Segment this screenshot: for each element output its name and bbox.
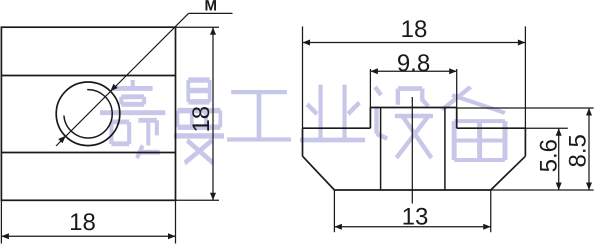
leader arrowhead upper (points down-left onto circle) <box>110 84 117 91</box>
dim 13: arrow right <box>483 224 491 230</box>
svg-text:18: 18 <box>69 209 96 236</box>
svg-text:M: M <box>204 0 217 14</box>
dim 9.8: right extension line <box>456 69 458 108</box>
right view plate right side <box>524 128 526 156</box>
svg-text:5.6: 5.6 <box>536 139 563 172</box>
watermark 曼 <box>174 80 224 163</box>
dim 18 top: arrow left <box>303 40 311 46</box>
dim 8.5: arrow down <box>586 183 592 191</box>
right view right chamfer <box>491 156 526 190</box>
watermark 工 <box>227 92 291 139</box>
dim 9.8: arrow right <box>449 68 457 74</box>
dim 18 vertical: arrow up <box>210 27 216 35</box>
right view plate top left segment <box>303 127 371 129</box>
dim 5.6: top extension line <box>525 127 567 129</box>
thread inner arc (3/4 circle) <box>64 90 112 138</box>
svg-text:18: 18 <box>401 16 428 43</box>
dim 8.5: top extension line <box>457 107 594 109</box>
dim 5.6: dimension line <box>558 128 560 190</box>
left view slot edge line upper <box>1 75 175 77</box>
dim 5.6: arrow down <box>556 183 562 191</box>
right view bottom edge <box>334 189 490 191</box>
right view boss top edge <box>370 107 456 109</box>
dim 18 bottom: arrow right <box>168 233 176 239</box>
right view plate left side <box>302 128 304 156</box>
dim 13: right extension line <box>490 190 492 232</box>
svg-text:9.8: 9.8 <box>397 50 430 77</box>
left view slot edge line lower <box>1 152 175 154</box>
dim 18 top: right extension line <box>524 26 526 128</box>
dim 9.8: dimension line <box>370 70 456 72</box>
dim 13: dimension line <box>334 226 490 228</box>
right view thread hole right line <box>444 108 446 191</box>
left view outline (top view of nut, 18x18) <box>1 27 175 200</box>
dim 13: arrow left <box>334 224 342 230</box>
dim 18 bottom: dimension line <box>1 235 175 237</box>
dim 18 top: arrow right <box>518 40 526 46</box>
leader line for thread label M <box>56 13 189 146</box>
svg-text:8.5: 8.5 <box>565 134 592 167</box>
right view boss right side <box>456 108 458 129</box>
watermark 业 <box>300 85 365 140</box>
dim 18 vertical: bottom extension line <box>176 199 220 201</box>
dim 18 bottom: right extension line <box>175 200 177 243</box>
dim 18 top: left extension line <box>302 26 304 128</box>
dim 18 top: dimension line <box>303 42 526 44</box>
dim 9.8: left extension line <box>369 69 371 108</box>
right view plate top right segment <box>457 127 526 129</box>
dim 18 vertical: dimension line <box>212 27 214 200</box>
dim 18 bottom: left extension line <box>0 200 2 243</box>
leader arrowhead lower (points up-right onto circle) <box>58 136 65 143</box>
watermark 嘉 <box>100 80 165 158</box>
dim 8.5: arrow up <box>586 108 592 116</box>
dim 18 bottom: arrow left <box>1 233 8 239</box>
dim 18 vertical: arrow down <box>210 193 216 201</box>
right view thread hole left line <box>380 108 382 191</box>
leader shoulder line <box>189 12 233 14</box>
right view centerline <box>411 97 413 204</box>
dim 9.8: arrow left <box>370 68 378 74</box>
dim 8.5: bottom extension line <box>491 189 594 191</box>
dim 8.5: dimension line <box>588 108 590 190</box>
svg-text:13: 13 <box>402 204 429 231</box>
svg-text:18: 18 <box>188 106 215 133</box>
thread outer circle <box>56 82 120 146</box>
right view left chamfer <box>303 156 335 190</box>
watermark 备 <box>442 87 505 160</box>
dim 5.6: arrow up <box>556 128 562 136</box>
right view boss left side <box>369 108 371 129</box>
watermark 设 <box>375 87 433 158</box>
dim 18 vertical: top extension line <box>176 26 220 28</box>
dim 13: left extension line <box>333 190 335 232</box>
